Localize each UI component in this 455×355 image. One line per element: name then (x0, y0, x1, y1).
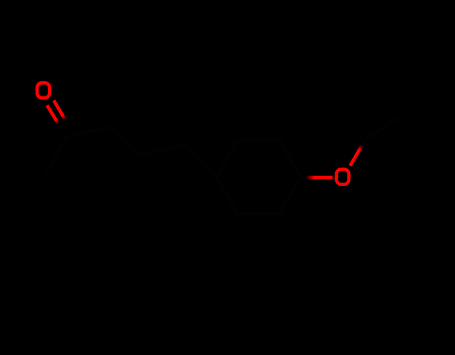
bond C1=O1 double bond line b (red, fades to black toward carbon) (54, 100, 65, 119)
atom O2: ether oxygen label (right) (336, 169, 349, 184)
bond O2-C5: bond from ether oxygen up-right to alkyl carbon (red fading to black) (350, 145, 362, 166)
wire: carbon skeleton bonds (black, invisible on black background) (47, 119, 397, 213)
atom O1: carbonyl oxygen label (top left) (37, 83, 50, 98)
bond C4-O2: horizontal bond from aryl carbon to ether oxygen (black fading to red) (306, 176, 333, 179)
bond C1=O1 double bond line a (red, fades to black toward carbon) (47, 105, 58, 124)
